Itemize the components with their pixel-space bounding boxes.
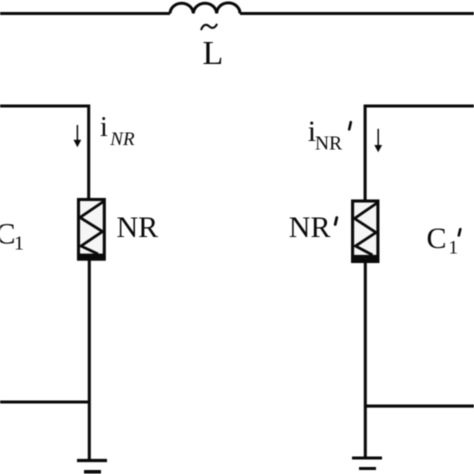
label i_NR'	[308, 115, 351, 155]
svg-text:C: C	[427, 222, 447, 255]
wire top rail right segment	[240, 12, 474, 15]
label C1	[0, 218, 24, 255]
wire bottom left rail	[0, 400, 89, 403]
wire below NR to ground	[88, 259, 91, 459]
inductor L	[170, 3, 240, 14]
arrow i_NR (down)	[74, 125, 82, 147]
svg-text:i: i	[100, 112, 108, 143]
label i_NR	[100, 112, 135, 150]
wire right top rail	[365, 106, 474, 201]
svg-text:NR: NR	[289, 211, 331, 244]
wire top rail left segment	[0, 12, 170, 15]
svg-text:NR: NR	[315, 134, 342, 155]
svg-text:NR: NR	[109, 129, 135, 150]
NR' zigzag	[355, 203, 378, 255]
svg-text:L: L	[203, 35, 224, 72]
wire below NR' to ground	[364, 261, 367, 457]
nonlinear resistor NR (box)	[79, 200, 105, 260]
svg-text:1: 1	[14, 233, 24, 255]
ground right	[352, 458, 382, 469]
NR bottom black bar	[77, 254, 105, 261]
nonlinear resistor NR' (box)	[353, 201, 378, 262]
ground left	[77, 461, 107, 472]
label L tilde accent	[201, 25, 216, 30]
wire left top rail	[0, 106, 89, 199]
wire bottom right rail	[365, 405, 474, 408]
arrow i_NR' (down)	[374, 129, 382, 153]
svg-text:NR: NR	[117, 211, 159, 244]
svg-text:1: 1	[449, 238, 459, 259]
label C1'	[427, 222, 461, 259]
NR' bottom black bar	[351, 255, 379, 262]
NR zigzag	[80, 202, 104, 255]
